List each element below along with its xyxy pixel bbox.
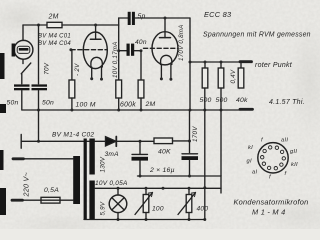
wire bus drop to rectifier line [38,110,40,141]
wire 2M to anode node [62,24,119,26]
wire 170V rail bus to cap [189,110,191,153]
svg-text:500: 500 [200,97,212,104]
switch S1 [21,59,31,84]
wire 2M to bus [140,98,142,110]
svg-text:0,4V: 0,4V [230,69,237,83]
svg-text:5,9V: 5,9V [100,201,107,215]
node dot 40n left [117,49,120,52]
scan edge artifact left 4 [0,188,6,215]
transformer T1 secondary HT [89,139,94,175]
terminal T left of rectifier line [20,135,22,149]
svg-text:BV M4 C04: BV M4 C04 [38,41,71,47]
capacitor 40n [127,44,135,56]
resistor 2M (V2 grid leak) [138,80,155,108]
potentiometer 100 [135,187,164,221]
tube socket [247,138,299,181]
faint scan smudges [0,0,50,36]
svg-text:40n: 40n [135,39,147,46]
lamp LA1 [109,187,127,221]
wire 50n right branch [38,25,40,84]
resistor 100M [69,80,96,109]
wire grid node down to 2M [140,51,142,80]
wire cap1 bottom to bus [21,91,23,111]
node dot grid V1a [69,48,72,51]
node dot bus x38.5 [37,109,40,112]
node dot bus x221 [220,109,223,112]
resistor 40K (filter) [154,138,173,155]
scan edge artifact left 2 [0,104,6,113]
node dot cap2 top [37,24,40,27]
wire top node A [23,24,47,26]
supply bus +170V [22,109,240,111]
resistor 500 #1 [200,61,212,104]
node dot rectifier line x38.5 [37,140,40,143]
svg-text:2M: 2M [145,101,156,108]
wire 500#2 down to ground line [220,88,222,176]
svg-text:BV M1-4 C02: BV M1-4 C02 [52,131,94,138]
svg-text:10V 0,17mA: 10V 0,17mA [112,41,119,78]
scan edge artifact left 3 [0,150,4,170]
svg-text:kI: kI [248,145,253,151]
node dot grid V2 feed [140,49,143,52]
capacitor 50n #2 [32,84,48,90]
wire 600k to bus [118,98,120,110]
svg-text:40k: 40k [236,97,248,104]
resistor 500 #2 [216,61,228,104]
node dot cap 16u #1 top [139,140,142,143]
svg-text:gII: gII [290,149,297,155]
svg-text:400: 400 [197,205,209,212]
node dot ground line x189.5 [188,175,191,178]
svg-text:M 1 - M 4: M 1 - M 4 [252,208,285,217]
svg-text:aI: aI [252,170,257,176]
wire mains top [24,158,74,160]
node dot bus x72 [70,109,73,112]
node dot bus x205 [203,109,206,112]
svg-text:600k: 600k [120,102,136,109]
svg-text:- 2V: - 2V [74,63,81,76]
wire 40K to 170V rail [173,140,190,142]
diode D1 [105,137,120,158]
microphone capsule M [12,40,33,59]
svg-text:40K: 40K [158,148,171,155]
node dot bus x141 [140,109,143,112]
resistor 2M (grid feed) [47,14,62,28]
wire output (roter Punkt) [190,61,240,63]
node dot anode rail / output [189,61,192,64]
svg-text:roter Punkt: roter Punkt [255,62,293,69]
scan edge artifact left 1 [0,53,5,79]
wire 5p to V2 anode node [135,17,190,19]
wire anode node down to 600k [118,25,120,80]
svg-text:50n: 50n [7,100,19,107]
node dot heater line x163 [162,187,165,190]
svg-text:ECC 83: ECC 83 [204,10,232,19]
svg-text:4.1.57 Thi.: 4.1.57 Thi. [269,99,305,106]
wire diode to 40K [116,140,154,142]
wire rectifier line left [21,140,105,142]
svg-text:100: 100 [152,205,164,212]
ground return line of filter caps [138,176,222,193]
svg-text:2M: 2M [48,14,59,21]
node dot x204.8 bottom [203,218,206,221]
heater return wire bottom [84,219,205,221]
svg-text:10V 0,05A: 10V 0,05A [95,180,128,187]
wire 40n to grid V2 [134,50,141,52]
fuse 0,5A [41,187,60,203]
svg-text:gI: gI [247,159,252,165]
svg-text:aII: aII [281,138,288,144]
node dot bus x190 [189,109,192,112]
svg-text:0,5A: 0,5A [44,187,59,194]
svg-text:5p: 5p [138,13,146,20]
node dot x204.8 lamp line [203,186,206,189]
transformer T1 secondary heater [89,181,94,220]
transformer T1 core [84,139,87,220]
node dot ground line x140 [139,175,142,178]
svg-text:50n: 50n [42,100,54,107]
wire grid to 100M [71,50,73,80]
svg-text:220 V~: 220 V~ [22,172,31,197]
wire 500#1 down to bottom [204,88,206,220]
svg-text:BV M4 C01: BV M4 C01 [38,34,71,40]
svg-text:130V: 130V [99,156,106,172]
capacitor 16u #2 [182,154,199,176]
svg-text:100 M: 100 M [76,102,96,109]
wire mains bottom through fuse [23,199,74,201]
svg-text:Spannungen mit RVM gemessen: Spannungen mit RVM gemessen [203,32,311,39]
wire 100M to bus [71,98,73,110]
wire anode jog to 5p [119,18,128,25]
triode V1a (ECC83 half) [71,25,107,81]
svg-text:2 × 16µ: 2 × 16µ [149,167,175,174]
svg-text:Kondensatormikrofon: Kondensatormikrofon [234,198,309,207]
resistor 40k [236,62,248,104]
triode V2 (ECC83 half) [144,18,179,81]
wire V2 anode rail down [189,18,191,110]
potentiometer 400 [178,187,208,221]
output stub thick [240,60,252,63]
node dot rail/40K [188,140,191,143]
capacitor 50n #1 [14,84,30,90]
bus stub thick [240,108,253,111]
wire to 40n [119,50,127,52]
svg-text:170V: 170V [192,126,199,142]
heater line [95,187,221,189]
transformer T1 primary [73,156,80,204]
svg-text:70V: 70V [43,62,50,75]
node dot anode V1a [94,24,97,27]
mains terminal top [13,157,24,160]
node dot bus x118.7 [117,109,120,112]
svg-text:3mA: 3mA [105,151,120,158]
wire cap2 bottom to bus [38,91,40,111]
capacitor 5p [128,12,135,25]
svg-text:170V 0,8mA: 170V 0,8mA [178,24,185,61]
resistor 600k [116,80,136,109]
svg-text:kII: kII [291,162,298,168]
wire capsule top lead [22,25,24,41]
capacitor 16u #1 [132,141,149,176]
mains terminal bottom [12,199,23,202]
node dot anode V2 [164,17,167,20]
